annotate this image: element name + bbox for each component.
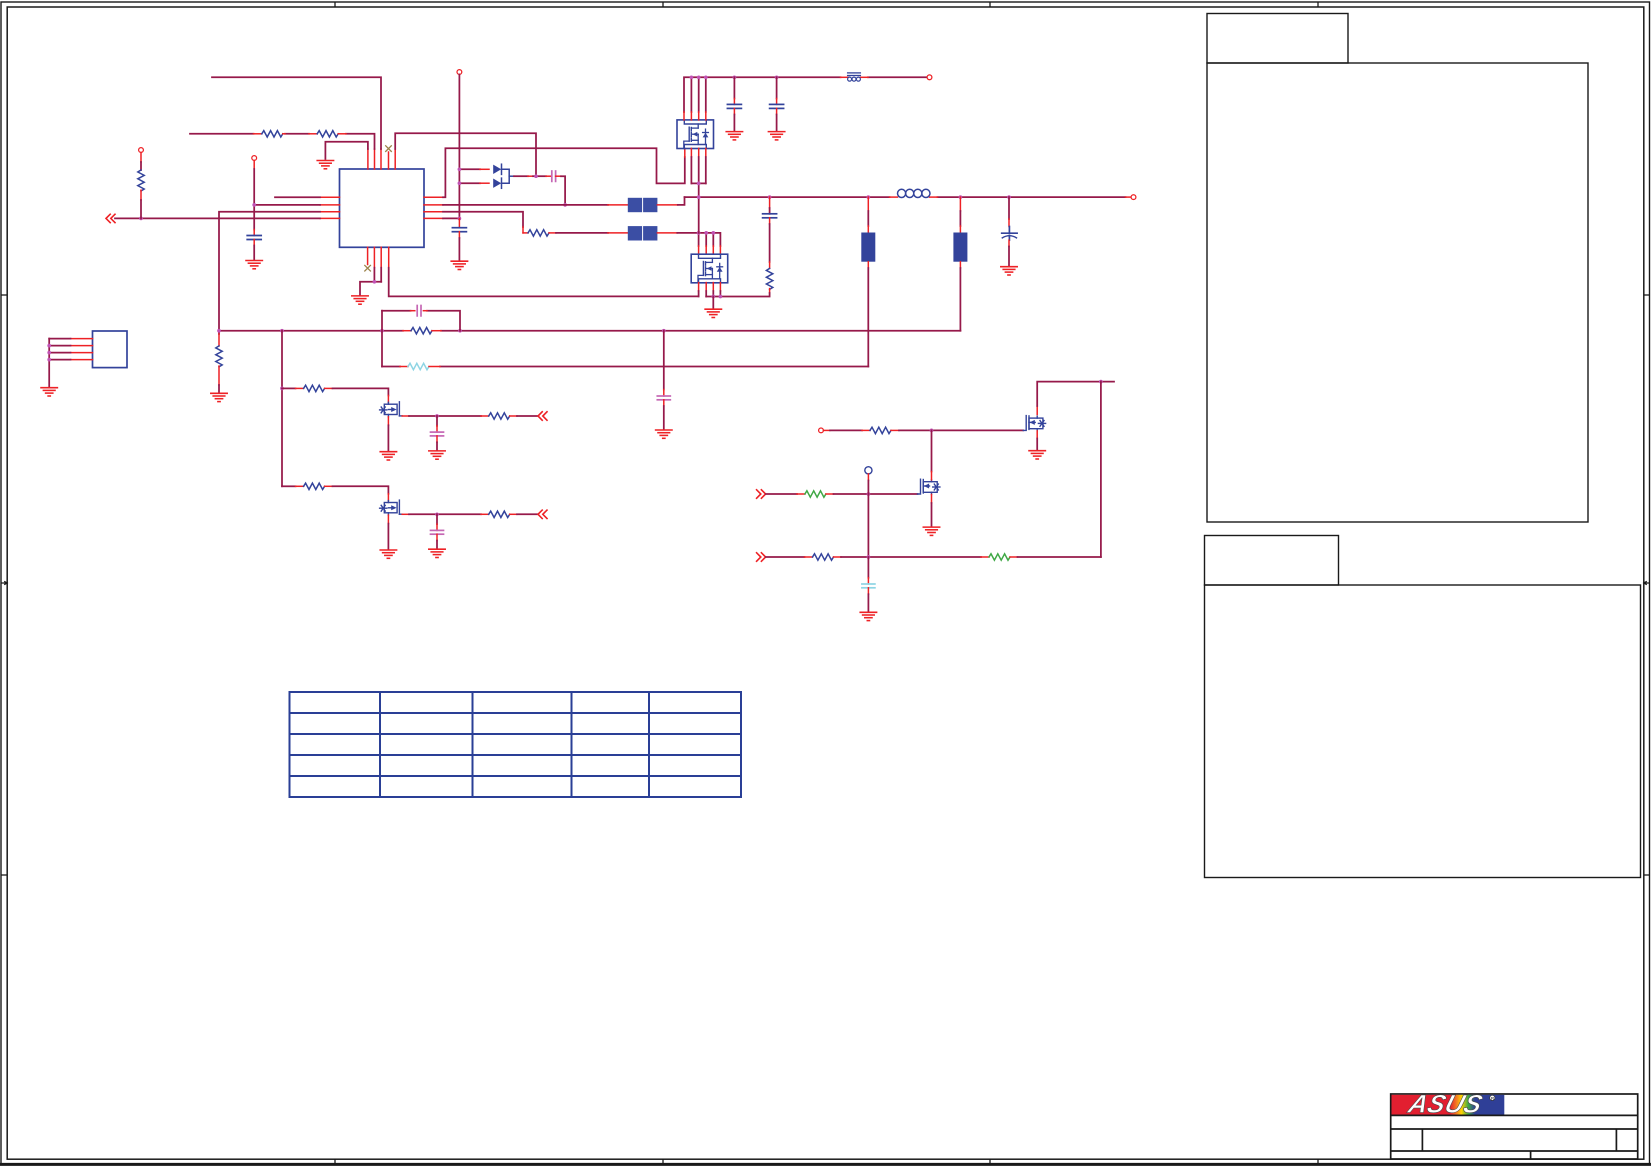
wire branch x282 down [281, 331, 283, 487]
wire R5 lead left [523, 227, 528, 233]
junction L2 [252, 203, 256, 207]
wire C11 to ground [867, 588, 869, 612]
wire R2 jumper lead [608, 204, 628, 206]
junction Q6 pin b [704, 231, 708, 235]
off-page chevron lower net [757, 553, 766, 561]
junction Q1 output [435, 414, 439, 418]
pin circle VIN [927, 75, 932, 80]
capacitor C4 [770, 104, 784, 108]
wire pin B1 stub [365, 265, 371, 271]
pin circle P3 top [457, 70, 462, 75]
junction rail A x663 [662, 329, 666, 333]
wire R9 leads [282, 387, 304, 389]
capacitor C3 [727, 104, 741, 108]
junction D1 anode [458, 167, 462, 171]
inductor L1 [890, 189, 938, 197]
wire R15 to R16 [834, 556, 990, 558]
border tick bottom 3 [989, 1159, 991, 1164]
off-page chevron Q1 net [538, 412, 547, 420]
title block frame [1391, 1094, 1638, 1159]
border mid arrow right [1644, 581, 1650, 584]
wire package Q5 gate stub [684, 148, 686, 157]
wire R4 to junction [140, 190, 142, 218]
ground under Q6 [705, 309, 721, 317]
connector J1 pin stubs [71, 339, 93, 360]
border tick right lower [1644, 874, 1650, 876]
title block divider right [1615, 1129, 1617, 1151]
ASUS logo (R) mark [1490, 1095, 1495, 1100]
ferrite bead FB1 [841, 73, 869, 81]
wire C9 branch [436, 416, 438, 432]
wire F2 to package Q6 pins [657, 233, 720, 246]
junction rail Q5 [697, 195, 701, 199]
resistor R7 on rail A [403, 328, 441, 334]
diode cathode bracket [502, 169, 515, 183]
pin circle P1 [139, 148, 144, 153]
wire riser RP2 [959, 197, 961, 232]
ic U1 body [340, 169, 425, 247]
wire R12 to chevron [510, 513, 538, 515]
junction Q6 pin a [697, 231, 701, 235]
wire R6 to Q6 bus [706, 289, 769, 297]
border tick top 4 [1317, 2, 1319, 7]
ground under pins B2 B3 [352, 296, 368, 304]
wire switch-node rail [685, 196, 1126, 198]
junction J1 c [47, 358, 51, 362]
resistor R1 [254, 131, 286, 137]
note box upper [1207, 63, 1588, 522]
junction rail C5 [768, 195, 772, 199]
junction Q6 source a [711, 295, 715, 299]
resistor R14 green [805, 491, 826, 497]
wire stub pin L1 [275, 196, 320, 198]
wire P3 vertical to junctions [458, 75, 460, 219]
wire net to pin T2 [190, 134, 375, 149]
ic U1 right pin stubs [424, 197, 443, 218]
wire rail to output pin [1126, 196, 1132, 198]
wire C1 to ground [253, 240, 255, 260]
capacitor C2 [552, 171, 556, 181]
wire pin B4 net [389, 268, 699, 297]
table row line 3 [290, 754, 742, 756]
resistor R4 vertical [138, 170, 144, 191]
table column line 4 [648, 692, 650, 797]
dual mosfet package Q6 [691, 254, 728, 283]
mosfet Q4 [918, 479, 940, 494]
off-page chevron left [106, 214, 115, 222]
junction rail A x460 [458, 329, 462, 333]
ground under Q4 [923, 527, 939, 535]
pin circle VOUT [1131, 195, 1136, 200]
title block bottom divider [1530, 1151, 1532, 1159]
svg-text:ASUS: ASUS [1404, 1089, 1486, 1118]
ground under C6 [1001, 267, 1017, 275]
border tick bottom 4 [1317, 1159, 1319, 1164]
ground under pin T1 wire [317, 161, 333, 169]
junction D2 anode [458, 181, 462, 185]
junction J1 b [47, 351, 51, 355]
wire junction to C12 [458, 219, 460, 228]
wire rail B [382, 366, 868, 368]
wire C6 riser [1008, 197, 1010, 226]
border tick top 1 [334, 2, 336, 7]
wire Q5 top pin risers [691, 77, 705, 112]
wire diode D1 anode [459, 168, 489, 170]
table column line 1 [379, 692, 381, 797]
wire net R1 to package gate [443, 148, 685, 197]
capacitor C9 pink [431, 432, 444, 436]
junction rail a [690, 75, 694, 79]
capacitor C11 cyan [862, 584, 875, 588]
wire R13 to Q3 gate [891, 429, 1023, 431]
junction rail c [704, 75, 708, 79]
wire R3 to ground [218, 366, 220, 393]
wire Q3 drain up and over [1037, 382, 1114, 415]
wire C5 riser [769, 197, 771, 214]
pin circle P4 [819, 428, 824, 433]
junction J1 a [47, 344, 51, 348]
ground under Q3 [1029, 451, 1045, 459]
wire chevron to R14 [766, 493, 805, 495]
ground under C12 [451, 261, 467, 269]
wire C4 to ground [776, 108, 778, 130]
wire Q5 top pin stubs [684, 112, 706, 120]
wire Q2 output [402, 513, 489, 515]
wire net R3 riser [443, 212, 523, 227]
border tick top 3 [989, 2, 991, 7]
junction Q2 output [435, 512, 439, 516]
capacitor C1 [247, 236, 261, 240]
wire Q3 source to ground [1036, 431, 1038, 450]
wire Q6 top pin stubs [699, 246, 721, 254]
title block line 2 [1391, 1128, 1638, 1130]
border tick right upper [1644, 294, 1650, 296]
resistor pack RP1 [861, 233, 875, 262]
junction x282 R9 [280, 387, 284, 391]
junction C2 net R2 [563, 203, 567, 207]
wire R16 to right drop [1010, 556, 1101, 558]
ground under C11 [860, 612, 876, 620]
wire Q6 gate drop [698, 291, 700, 296]
wire R5 to jumpers F2 [549, 232, 628, 234]
ground under C8 [656, 430, 672, 438]
capacitor C5 [763, 214, 777, 218]
connector J1 wires [49, 339, 70, 387]
ASUS logo color bar [1392, 1095, 1505, 1115]
capacitor C10 pink [431, 530, 444, 534]
ic U1 top pin stubs [368, 149, 395, 169]
note tab lower [1205, 536, 1339, 586]
wire Q4 source to ground [931, 495, 933, 527]
wire Q6 bottom pin stubs [699, 283, 721, 291]
wire pin L4 net [115, 217, 320, 219]
junction rail A x382 [380, 329, 384, 333]
resistor R5 [528, 230, 549, 236]
wire top rail VIN [684, 77, 927, 112]
table column line 2 [472, 692, 474, 797]
resistor R2 [309, 131, 346, 137]
ic U1 bottom pin stubs [368, 247, 389, 267]
wire P1 to R4 [140, 153, 142, 171]
border tick left upper [1, 294, 7, 296]
ground under C1 [246, 261, 262, 269]
table row line 1 [290, 712, 742, 714]
wire feedback rail A [219, 330, 960, 332]
resistor R9 [304, 385, 325, 391]
junction Q4 drain net [930, 429, 934, 433]
wire Q2 source to ground [387, 515, 389, 549]
junction Q6 pin c [711, 231, 715, 235]
wire C9 to ground [436, 436, 438, 450]
wire Q5 bottom gate path (see net R1) [691, 148, 705, 157]
no-connect mark pin T4 [386, 146, 392, 152]
wire P4 to R13 [824, 429, 871, 431]
table row line 4 [290, 775, 742, 777]
junction gate net [867, 492, 871, 496]
junction rail A x282 [280, 329, 284, 333]
ground under Q2 [380, 550, 396, 558]
junction rail C4 [775, 75, 779, 79]
junction rail C6 [1007, 195, 1011, 199]
wire bracket to C2 [514, 175, 552, 177]
mosfet Q1 [380, 402, 403, 417]
border tick top 2 [662, 2, 664, 7]
wire R10 to chevron [510, 415, 538, 417]
resistor R6 vertical [766, 268, 772, 289]
resistor R11 [304, 483, 325, 489]
wire P2 vertical [253, 161, 255, 236]
junction rail A left [217, 329, 221, 333]
wire gate junction down [867, 494, 869, 557]
wire net to pin T3 [212, 77, 381, 149]
connector J1 body [93, 331, 128, 368]
wire R11 to Q2 gate [325, 486, 389, 500]
wire net R2 to jumpers [443, 204, 608, 206]
ground under R3 [211, 393, 227, 401]
jumper pads F1 [628, 198, 658, 212]
wire C11 branch [867, 557, 869, 584]
table frame [290, 692, 742, 797]
dual mosfet package Q5 [677, 120, 714, 149]
wire C3 riser [733, 77, 735, 104]
ic U1 left pin stubs [320, 197, 340, 218]
border tick left lower [1, 874, 7, 876]
wire R9 to Q1 gate [325, 388, 389, 402]
ground under C10 [429, 549, 445, 557]
table column line 3 [571, 692, 573, 797]
resistor R8 cyan on rail B [400, 363, 440, 369]
junction top corner [1099, 380, 1103, 384]
off-page chevron gate net [757, 490, 766, 498]
junction Q5 source bus [697, 182, 701, 186]
ground under C3 [726, 132, 742, 140]
junction rail RP2 [959, 195, 963, 199]
resistor R16 green [989, 554, 1010, 560]
wire C5 to R6 [769, 218, 771, 269]
wire C4 riser [776, 77, 778, 104]
pin circle P2 [252, 156, 257, 161]
wire R14 to Q4 gate [826, 493, 918, 495]
wire C10 branch [436, 514, 438, 530]
wire Q5 source bus [691, 157, 705, 233]
wire chevron to R15 [766, 556, 813, 558]
wire Q1 output [402, 415, 489, 417]
wire net pin T5 [395, 133, 536, 176]
off-page chevron Q2 net [538, 510, 547, 518]
wire Q6 source risers [706, 291, 720, 297]
ground under C4 [768, 132, 784, 140]
resistor R10 [489, 413, 510, 419]
wire C6 to ground [1008, 240, 1010, 266]
wire diode D2 anode [459, 182, 489, 184]
wire pin L2 net [254, 204, 320, 206]
wire cap C8 branch off rail A [663, 331, 665, 396]
junction pin R4 [458, 217, 462, 221]
capacitor C7 (parallel with R7) [411, 306, 428, 316]
wire C12 to ground [458, 232, 460, 261]
capacitor C8 pink [657, 396, 670, 400]
wire right drop [1100, 382, 1102, 557]
wire pins B2 B3 to ground [360, 268, 381, 296]
resistor pack RP2 [953, 233, 967, 262]
wire C10 to ground [436, 534, 438, 548]
wire C3 to ground [733, 108, 735, 130]
border tick bottom 1 [334, 1159, 336, 1164]
wire Q6 top pin risers [699, 233, 714, 246]
title block divider left [1421, 1129, 1423, 1151]
wire Q6 source to ground [712, 297, 714, 309]
title block line under logo [1391, 1114, 1638, 1116]
junction L4 [139, 217, 143, 221]
test point circle blue [865, 467, 872, 474]
wire C2 to net R2 [556, 176, 566, 205]
mosfet Q2 [380, 500, 403, 515]
ground under Q1 [380, 452, 396, 460]
ground under J1 [41, 388, 57, 396]
wire riser RP1 [867, 197, 869, 232]
ground under C9 [429, 451, 445, 459]
capacitor C12 [452, 228, 466, 232]
resistor R3 vertical [216, 346, 222, 367]
ASUS logo wordmark [1404, 1089, 1486, 1118]
junction rail b [697, 75, 701, 79]
wire RC parallel branch [382, 311, 460, 367]
junction lower net [867, 555, 871, 559]
wire C8 to ground [663, 400, 665, 430]
border tick bottom 2 [662, 1159, 664, 1164]
mosfet Q3 [1023, 416, 1045, 431]
wire R11 leads [282, 485, 304, 487]
resistor R13 [870, 427, 891, 433]
wire pin L3 net [219, 212, 320, 334]
junction B2 [373, 280, 377, 284]
title block line 3 [1391, 1150, 1638, 1152]
capacitor C6 (curved plate) [1002, 227, 1017, 241]
resistor R15 [813, 554, 834, 560]
junction Q6 source b [719, 295, 723, 299]
wire Q4 drain riser [931, 430, 933, 479]
resistor R12 [489, 511, 510, 517]
wire testpoint stub [867, 474, 869, 494]
border mid arrow left [1, 581, 7, 584]
wire RP1 to rail B [867, 262, 869, 367]
thick outer bottom edge [0, 1163, 1651, 1166]
diode D1 [493, 164, 501, 174]
table row line 2 [290, 733, 742, 735]
wire Q1 source to ground [387, 417, 389, 451]
note box lower [1205, 585, 1641, 878]
wire F1 to rail riser [657, 197, 684, 205]
wire pin R4 to junction [443, 217, 459, 219]
diode D2 [493, 178, 501, 188]
wire R3 lead [218, 334, 220, 346]
junction rail C3 [733, 75, 737, 79]
wire RP2 to rail A [959, 262, 961, 331]
note tab upper [1207, 14, 1348, 64]
junction T5 net [534, 174, 538, 178]
jumper pads F2 [628, 226, 658, 240]
junction rail RP1 [866, 195, 870, 199]
wire pin T1 to ground [325, 142, 368, 159]
